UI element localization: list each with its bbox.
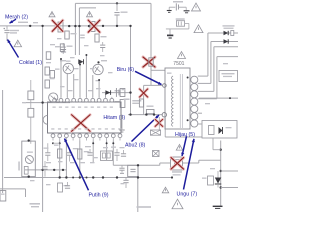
arrow merah	[10, 19, 17, 23]
polarity dot	[187, 77, 189, 79]
wire pin drop small	[158, 117, 160, 130]
IC U701 bottom pins	[51, 134, 122, 141]
junction	[137, 164, 139, 166]
warning triangle bottom right	[172, 199, 183, 209]
wire pin drop 5	[85, 55, 87, 97]
svg-text:Putih (9): Putih (9)	[89, 193, 109, 199]
transformer core lines	[180, 74, 182, 128]
junction tops	[60, 54, 100, 81]
warning triangle small PC	[176, 144, 183, 150]
resistor R717	[50, 71, 55, 79]
junction	[88, 25, 90, 27]
junction	[220, 170, 222, 172]
wire box drop	[213, 138, 221, 150]
capacitor C702	[61, 43, 73, 54]
wire d2 rail	[211, 41, 238, 43]
value text	[80, 35, 85, 39]
arrow ungu	[184, 139, 195, 190]
diode D561	[224, 31, 229, 35]
junction top rail	[116, 2, 118, 4]
junction	[116, 25, 118, 27]
capacitor C562 electrolytic	[176, 18, 189, 29]
resistor R713 left col	[28, 91, 34, 100]
junction	[220, 186, 222, 188]
fuse link jog	[231, 31, 234, 36]
IC U701 body	[48, 102, 122, 133]
junction	[62, 169, 64, 171]
wire sec tap a	[198, 112, 202, 114]
polarity dot	[187, 119, 189, 121]
ground symbol right	[213, 206, 223, 208]
transformer T701 body	[165, 68, 190, 129]
wire pin drop 3	[73, 74, 75, 97]
IC U701 top pins	[53, 97, 114, 102]
resistor R708 on hitam	[146, 106, 154, 114]
diode D562	[224, 39, 229, 43]
junction	[28, 175, 30, 177]
warning triangle TR2	[194, 25, 203, 33]
wire vertical V2	[78, 8, 80, 55]
svg-text:Merah (2): Merah (2)	[5, 14, 28, 20]
capacitor C701 electrolytic	[4, 26, 20, 41]
misc value texts right	[167, 63, 228, 169]
junction	[137, 176, 139, 178]
warning triangle input	[14, 40, 21, 47]
junction	[59, 176, 61, 178]
IC pin numbers bottom	[51, 128, 121, 129]
resistor R704	[95, 34, 107, 42]
capacitor C704 snubber	[114, 3, 127, 26]
wire pin drop 4	[79, 65, 81, 98]
wire vertical left drop	[42, 26, 44, 178]
resistor R571	[202, 176, 214, 185]
capacitor C705	[55, 46, 66, 52]
label 7501	[173, 61, 184, 67]
resistor under X	[149, 58, 153, 66]
regulator box U561	[219, 71, 238, 82]
resistor R712 below bus	[58, 183, 69, 192]
wire left col	[30, 80, 32, 144]
resistor R705	[46, 52, 51, 60]
warning triangle above trafo	[178, 52, 186, 59]
wire vertical right drop	[220, 141, 222, 207]
wire vertical V1	[74, 3, 76, 55]
capacitor C711	[67, 148, 78, 162]
resistor R716	[45, 80, 50, 88]
junction	[102, 25, 104, 27]
wire d1 rail	[208, 32, 238, 34]
arrow biru	[135, 71, 162, 84]
IC pin drop b	[65, 141, 67, 178]
fail mark X over R702	[52, 20, 63, 31]
value text 3d08	[132, 100, 141, 104]
capacitor C715	[120, 147, 127, 156]
wire bottom bus	[4, 177, 172, 179]
arrow putih	[64, 139, 88, 191]
transformer pin 2 circle	[162, 113, 166, 117]
capacitor C561	[169, 1, 186, 11]
ground symbol 2	[167, 35, 173, 38]
transformer primary winding	[171, 76, 173, 126]
junction	[153, 113, 155, 115]
label Ungu (7)	[177, 191, 198, 197]
resistor R710	[54, 145, 62, 159]
wire vertical bottom left	[42, 178, 44, 213]
photocoupler PC561 under X	[171, 157, 183, 170]
wire bottom mid vertical 2	[137, 178, 139, 213]
arrow hijau	[181, 136, 186, 156]
junction	[220, 149, 222, 151]
wire opto in	[160, 163, 171, 165]
ground cap hitam	[119, 115, 124, 132]
wire main top rail	[0, 25, 131, 27]
svg-text:Coklat (1): Coklat (1)	[19, 60, 42, 66]
junction row	[52, 142, 114, 144]
warning triangle small left	[49, 12, 55, 17]
wire top feedback rail	[75, 2, 151, 4]
IC pin drop e	[106, 141, 108, 161]
junction	[41, 169, 43, 171]
fuse crossed box	[150, 130, 160, 135]
svg-text:Abu2 (8): Abu2 (8)	[125, 143, 146, 149]
capacitor C713 below bus	[65, 182, 70, 188]
diode D701	[78, 59, 83, 64]
junction	[41, 101, 43, 103]
junction	[229, 97, 231, 99]
capacitor C718 gnd	[119, 165, 124, 173]
junction	[92, 176, 94, 178]
wire gate horizontal	[144, 84, 163, 86]
label text PC	[172, 171, 182, 175]
junction	[129, 25, 131, 27]
junction	[74, 25, 76, 27]
ground symbol 1b	[184, 7, 190, 13]
wire pin drop 1	[60, 59, 62, 97]
wire right link	[183, 160, 221, 163]
junction	[129, 113, 131, 115]
transistor Q701	[60, 60, 74, 74]
svg-text:Biru (6): Biru (6)	[117, 67, 135, 73]
resistor R703	[65, 31, 77, 39]
wire to transformer top	[151, 69, 165, 71]
label Abu2 (8)	[125, 143, 146, 149]
arrow coklat	[8, 40, 19, 58]
wire gnd2 rail	[166, 29, 189, 35]
junction	[28, 139, 30, 141]
junction	[116, 176, 118, 178]
label Merah (2)	[5, 14, 28, 20]
resistor R706	[60, 44, 64, 52]
misc value texts	[50, 38, 113, 91]
junction	[72, 177, 74, 179]
label Hijau (5)	[175, 132, 195, 138]
resistor R707b	[115, 100, 125, 108]
junction	[53, 169, 55, 171]
wire sec tap b	[198, 123, 202, 125]
value text above rail	[18, 22, 38, 24]
junction	[65, 176, 67, 178]
IC pin drop c	[79, 141, 81, 178]
label Hitam (3)	[103, 115, 125, 121]
capacitor C714 left of opto	[121, 178, 129, 189]
box component bottom	[101, 151, 113, 161]
capacitor C716	[111, 147, 120, 162]
pin label 3a	[124, 99, 130, 101]
ground symbol 1a	[167, 7, 172, 12]
value text bottom	[30, 203, 152, 208]
fail mark X over photocoupler	[171, 158, 184, 170]
components in box	[209, 126, 232, 135]
svg-text:7501: 7501	[173, 61, 184, 67]
wire right out1	[221, 170, 238, 172]
wire right out2	[221, 187, 238, 189]
wire rail4	[217, 56, 238, 58]
wire bottom mid vertical	[137, 165, 139, 177]
wire pin drop 8	[105, 93, 107, 97]
capacitor C703	[100, 42, 105, 52]
wire vertical snubber	[150, 3, 152, 85]
warning triangle TR1	[192, 3, 201, 11]
resistor R714 left col	[22, 102, 34, 117]
diode D571	[215, 171, 222, 188]
capacitor C717	[42, 161, 47, 177]
IC pin drop a	[59, 141, 61, 178]
transistor Q702	[93, 60, 107, 75]
wire tap3	[198, 47, 214, 92]
capacitor C706	[116, 88, 125, 97]
wire secondary bus	[25, 169, 67, 171]
wire vertical under rail	[130, 26, 132, 115]
junction	[78, 25, 80, 27]
junction	[102, 176, 104, 178]
label Putih (9)	[89, 193, 109, 199]
vertical value text	[18, 162, 20, 171]
transistor Q704	[25, 152, 33, 164]
fail mark X over startup R	[143, 57, 155, 67]
warning triangle tiny	[162, 187, 169, 193]
junction opto right	[171, 176, 173, 178]
resistor R718	[24, 167, 28, 175]
value strips mid	[46, 57, 100, 91]
resistor R702 fusible	[58, 22, 63, 32]
node A junction	[29, 25, 31, 27]
wire pin drop 2	[66, 74, 68, 97]
arrow abu2	[132, 115, 160, 142]
fuse F702 on rail	[90, 22, 95, 32]
IC pin numbers top	[53, 107, 113, 108]
node B junction	[41, 25, 43, 27]
transistor Q703	[49, 93, 58, 102]
svg-text:Hijau (5): Hijau (5)	[175, 132, 195, 138]
wire link pins	[53, 142, 60, 144]
transformer pin 1 circle	[163, 84, 167, 88]
subcircuit box Q704	[22, 141, 36, 177]
optocoupler box	[128, 165, 138, 176]
fail mark X over trafo pin	[155, 119, 163, 126]
left edge box	[0, 191, 6, 202]
wire tap1	[198, 33, 208, 76]
wire stub	[79, 7, 96, 9]
label Biru (6)	[117, 67, 135, 73]
svg-text:Ungu (7): Ungu (7)	[177, 191, 198, 197]
wire vertical gate drop	[143, 85, 145, 114]
IC U701 notch	[43, 115, 47, 124]
wire left border vertical	[2, 90, 4, 193]
wire pin drop 7	[98, 80, 100, 97]
capacitor C712	[85, 146, 98, 158]
IC pin drop d	[92, 141, 94, 164]
junction	[86, 177, 88, 179]
resistor R711	[78, 149, 89, 159]
wire opto rail	[113, 164, 160, 166]
capacitor C710	[44, 143, 51, 161]
diode D702 snubber	[105, 90, 110, 95]
wire hitam net	[128, 114, 163, 116]
wire rail3	[214, 46, 238, 48]
wire pin2 drop	[165, 117, 202, 137]
misc value texts bottom	[30, 147, 108, 185]
resistor R707	[115, 89, 125, 97]
wire bottom left L	[0, 189, 26, 197]
junction	[79, 176, 81, 178]
IC pin drop f	[112, 141, 114, 166]
fail mark X over F702	[88, 20, 100, 32]
wire snubber cap link	[102, 92, 131, 94]
junction	[68, 25, 70, 27]
junction dark dot	[97, 61, 99, 63]
resistor R715	[45, 67, 50, 75]
wire tap2	[198, 42, 211, 84]
fail mark X over IC	[72, 115, 91, 132]
diode label text	[223, 25, 235, 29]
wire horizontal mid-left	[23, 102, 70, 104]
warning triangle small	[87, 12, 93, 17]
junction	[145, 113, 147, 115]
resistor R709 vert	[139, 99, 143, 107]
fail mark X small D	[140, 89, 148, 97]
label Coklat (1)	[19, 60, 42, 66]
wire pin drop 6	[92, 75, 94, 97]
wire tap4	[198, 57, 217, 99]
crossed component box	[153, 151, 160, 157]
junction	[129, 91, 131, 93]
transformer secondary winding	[191, 76, 198, 127]
wire reg rail	[199, 97, 238, 99]
secondary lower box	[202, 121, 237, 139]
